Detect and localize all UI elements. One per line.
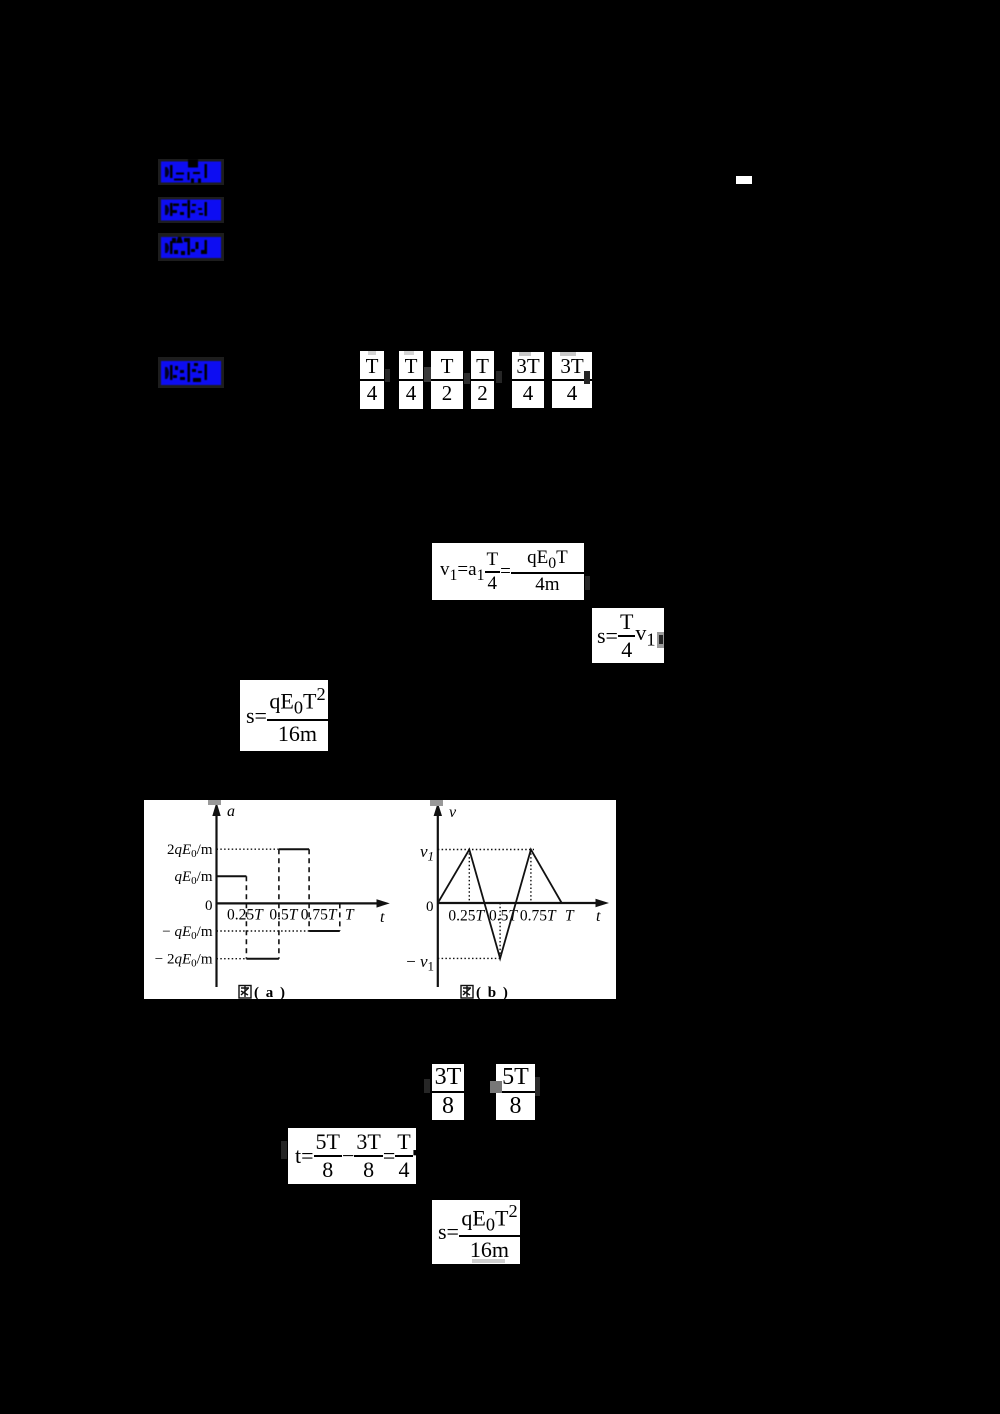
faint comma artifacts between fraction boxes <box>385 369 390 382</box>
label 分析 <box>158 233 224 261</box>
svg-text:( a ): ( a ) <box>254 985 287 999</box>
dashed verticals <box>246 849 339 959</box>
label 考点 <box>158 159 224 185</box>
right graph x-axis <box>438 902 599 904</box>
svg-text:( b ): ( b ) <box>476 985 509 999</box>
dotted horizontals <box>438 850 534 959</box>
svg-text:0.25T: 0.25T <box>227 907 264 924</box>
svg-text:qE0/m: qE0/m <box>174 869 212 887</box>
light gray notches on box top edges <box>368 351 376 355</box>
svg-text:T: T <box>345 907 355 924</box>
formula v1 = a1 T/4 = qE0T/4m <box>432 543 584 600</box>
gray comma artifact right of s=T/4 v1 <box>657 632 664 648</box>
left graph y-axis <box>215 812 217 987</box>
svg-text:2qE0/m: 2qE0/m <box>167 842 213 860</box>
step curve solid <box>217 849 340 959</box>
formula t = 5T/8 - 3T/8 = T/4 <box>288 1128 416 1184</box>
svg-text:− 2qE0/m: − 2qE0/m <box>155 952 213 970</box>
box 5T/8 <box>496 1064 535 1120</box>
svg-text:0.75T: 0.75T <box>301 907 338 924</box>
svg-text:0.75T: 0.75T <box>520 908 557 925</box>
formula s = qE0T^2/16m (first) <box>240 680 328 751</box>
caption 图(a) <box>239 986 251 999</box>
svg-text:v: v <box>449 804 457 821</box>
formula s = qE0T^2/16m (second) <box>432 1200 520 1264</box>
svg-text:a: a <box>227 803 235 820</box>
svg-text:T: T <box>565 908 575 925</box>
formula s = T/4 v1 <box>592 608 664 663</box>
caption 图(b) <box>461 986 473 999</box>
triangle wave <box>438 850 562 959</box>
box 3T/8 <box>432 1064 464 1120</box>
svg-text:0.5T: 0.5T <box>269 907 298 924</box>
svg-text:− v1: − v1 <box>406 952 434 974</box>
dotted reference lines <box>217 849 310 959</box>
gray artifacts atop axes <box>208 800 221 805</box>
graph panel <box>144 800 616 999</box>
white dash top right <box>736 176 752 184</box>
right graph y-axis <box>437 812 439 987</box>
fraction row: T/4 T/4 T/2 T/2 3T/4 3T/4 <box>360 351 384 409</box>
label 解答 <box>158 357 224 388</box>
light notch bottom of last box <box>472 1259 505 1263</box>
svg-text:t: t <box>596 908 601 925</box>
svg-text:0: 0 <box>205 898 213 914</box>
label 专题 <box>158 197 224 223</box>
svg-text:t: t <box>380 909 385 926</box>
svg-text:v1: v1 <box>420 842 434 864</box>
dotted verticals <box>469 850 531 959</box>
left graph x-axis <box>217 902 381 904</box>
svg-text:− qE0/m: − qE0/m <box>162 924 213 942</box>
svg-text:0: 0 <box>426 899 434 915</box>
gray artifacts near 5T/8 box <box>490 1081 502 1093</box>
svg-text:0.25T: 0.25T <box>448 908 485 925</box>
